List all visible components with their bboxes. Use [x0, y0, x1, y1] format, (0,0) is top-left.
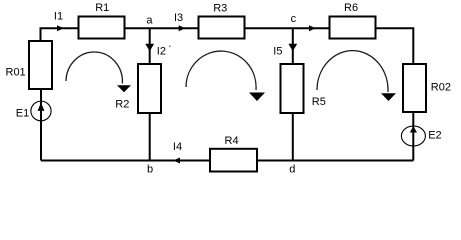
svg-text:I1: I1 [54, 11, 63, 23]
svg-text:b: b [147, 164, 153, 176]
svg-text:R01: R01 [6, 66, 26, 78]
svg-text:R4: R4 [225, 135, 239, 147]
svg-text:I2: I2 [157, 46, 166, 58]
svg-text:R6: R6 [344, 2, 358, 14]
svg-text:E2: E2 [428, 130, 441, 142]
svg-text:R3: R3 [213, 2, 227, 14]
svg-text:d: d [289, 164, 295, 176]
svg-text:I4: I4 [173, 141, 182, 153]
svg-text:E1: E1 [16, 108, 29, 120]
svg-text:I3: I3 [174, 12, 183, 24]
svg-text:a: a [146, 15, 153, 27]
svg-text:R02: R02 [431, 82, 451, 94]
svg-text:R5: R5 [312, 96, 326, 108]
svg-text:R1: R1 [95, 2, 109, 14]
svg-text:R2: R2 [115, 99, 129, 111]
svg-text:c: c [291, 13, 297, 25]
svg-text:I5: I5 [273, 45, 282, 57]
